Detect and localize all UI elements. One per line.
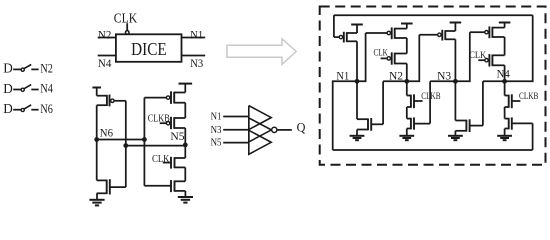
pmos P3 CLKB	[160, 117, 186, 129]
wire M4 gate rail	[382, 81, 384, 124]
wire rail to P4 gate	[333, 15, 335, 37]
CLK bubble	[125, 31, 129, 35]
label N1	[190, 29, 203, 41]
wire tristate column c	[184, 167, 186, 181]
switch D input N4	[3, 81, 53, 96]
svg-text:CLKB: CLKB	[519, 92, 538, 102]
label CLKB col2	[421, 92, 440, 102]
svg-text:N3: N3	[211, 124, 222, 136]
node N5 dot	[183, 143, 188, 148]
label CLKB	[148, 113, 170, 124]
svg-text:D: D	[3, 101, 13, 116]
pmos P8 col4	[470, 26, 505, 38]
wire N3 to P8 gate	[455, 32, 469, 81]
label N2	[98, 29, 112, 41]
label CLKB col4	[519, 92, 538, 102]
label voter N5	[211, 137, 222, 149]
wire M9 gate rail	[532, 123, 534, 150]
wire voter input N1	[223, 116, 249, 118]
wire col2 b	[406, 107, 408, 119]
wire col3 drain	[454, 39, 456, 81]
ground col4	[497, 129, 512, 141]
wire N2 to P7 gate	[407, 35, 420, 82]
wire col4 to M8	[504, 81, 506, 95]
nmos M1 left inverter	[97, 179, 126, 194]
ground tristate	[178, 191, 193, 203]
svg-text:N1: N1	[190, 29, 203, 41]
svg-text:CLK: CLK	[374, 48, 388, 58]
wire bottom feedback N1 to M8 gate	[333, 149, 533, 151]
svg-text:D: D	[3, 61, 13, 76]
label voter N1	[211, 111, 222, 123]
nmos M5 CLKB col2	[407, 94, 423, 108]
ground col2	[399, 129, 414, 141]
wire col2 drain	[406, 64, 408, 82]
wire tristate column b	[184, 128, 186, 158]
nmos M7 col3	[455, 119, 483, 132]
wire N2 to DICE	[98, 37, 116, 39]
switch D input N2	[3, 61, 53, 76]
VDD col1	[351, 25, 363, 34]
wire col4 drain	[504, 65, 506, 81]
wire N1 left drop	[333, 81, 357, 150]
nmos M8 CLKB col4	[505, 94, 521, 108]
nmos M9 col4	[505, 117, 533, 129]
switch D input N6	[3, 101, 53, 116]
wire N4 to DICE	[98, 55, 116, 57]
wire col2 to M5	[406, 81, 408, 95]
wire M6 gate rail	[429, 81, 431, 123]
block arrow	[227, 39, 296, 65]
wire N4 to M7 rail	[483, 80, 505, 82]
VDD left inverter	[92, 88, 101, 96]
VDD col4	[499, 23, 511, 28]
svg-text:Q: Q	[297, 120, 306, 134]
voter output bubble	[272, 127, 277, 132]
wire col1 drain	[356, 41, 358, 81]
CLK label	[114, 10, 138, 25]
wire node N5	[126, 145, 186, 147]
svg-text:DICE: DICE	[131, 39, 167, 59]
gate rail N5 side	[125, 101, 127, 187]
voter triangle top	[249, 106, 271, 130]
svg-text:N1: N1	[211, 111, 222, 123]
gate rail N6 side	[143, 98, 145, 186]
pmos P6 CLK col2	[381, 52, 407, 64]
svg-text:N5: N5	[211, 137, 222, 149]
junction N5 left	[123, 143, 128, 148]
node N2 dot	[404, 79, 409, 84]
ground left inverter	[89, 193, 104, 205]
wire node N6	[97, 139, 145, 141]
DICE block U1	[116, 34, 182, 62]
pmos P2 tristate top	[144, 91, 185, 104]
VDD col3	[450, 23, 462, 32]
wire N3 to M6 rail	[430, 80, 455, 82]
wire col1 to M4	[356, 81, 358, 119]
label voter N3	[211, 124, 222, 136]
svg-text:N6: N6	[100, 127, 113, 139]
nmos M3 tristate bottom	[144, 180, 185, 192]
svg-text:N2: N2	[98, 29, 112, 41]
wire voter output	[277, 129, 292, 131]
wire col4 b	[504, 107, 506, 119]
VDD tristate	[179, 84, 193, 93]
svg-text:N3: N3	[190, 58, 203, 70]
wire tristate column a	[184, 103, 186, 118]
wire CLK stub	[126, 23, 128, 30]
label CLK tristate	[152, 154, 170, 165]
pmos P4 col1	[334, 32, 357, 43]
node N3 dot	[453, 79, 458, 84]
junction N6 left	[94, 137, 99, 142]
wire col2 a	[406, 38, 408, 54]
svg-text:N4: N4	[98, 58, 112, 70]
label N3 node	[437, 71, 451, 83]
voter triangle mid	[249, 118, 272, 142]
svg-text:N2: N2	[40, 62, 53, 76]
wire M7 gate rail	[482, 81, 484, 125]
pmos P7 col3	[419, 30, 455, 41]
svg-text:N4: N4	[497, 68, 510, 80]
label N4	[98, 58, 112, 70]
wire DICE to N1	[182, 37, 206, 39]
label CLK col4	[469, 51, 486, 61]
wire col4 a	[504, 37, 506, 55]
ground col1	[350, 130, 365, 141]
nmos M6 col2	[407, 117, 430, 129]
svg-text:N4: N4	[40, 82, 53, 96]
nmos M2 CLK	[163, 157, 186, 169]
wire DICE to N3	[182, 55, 206, 57]
svg-text:N5: N5	[170, 131, 184, 143]
label N2 node	[389, 71, 403, 83]
node N4 dot	[502, 79, 507, 84]
ground col3	[448, 131, 463, 140]
label N3	[190, 58, 203, 70]
pmos P5 col2	[366, 27, 407, 39]
label N4 node	[497, 68, 510, 80]
wire voter input N5	[223, 142, 249, 144]
svg-text:CLK: CLK	[114, 10, 138, 25]
label Q	[297, 120, 306, 134]
pmos P1 left inverter	[97, 95, 126, 107]
wire left column N6	[96, 105, 98, 180]
voter triangle bottom	[249, 130, 271, 154]
junction N6 right	[142, 137, 147, 142]
pmos P9 CLK col4	[478, 54, 504, 66]
svg-text:N6: N6	[40, 102, 53, 116]
nmos M4 col1	[357, 118, 383, 131]
label N1 node	[336, 71, 349, 83]
wire col3 to M7	[454, 81, 456, 120]
label CLK col2	[374, 48, 388, 58]
wire N1 to P5 gate	[357, 33, 366, 81]
wire top feedback N4 to P4 gate	[334, 14, 533, 16]
svg-text:D: D	[3, 81, 13, 96]
wire N2 to M4 rail	[383, 80, 407, 82]
label N6	[100, 127, 113, 139]
node N1 dot	[355, 79, 360, 84]
wire voter input N3	[223, 129, 249, 131]
dashed box DICE cell	[320, 7, 546, 165]
label N5	[170, 131, 184, 143]
wire N4 to top feedback	[505, 15, 533, 81]
VDD col2	[401, 24, 413, 29]
